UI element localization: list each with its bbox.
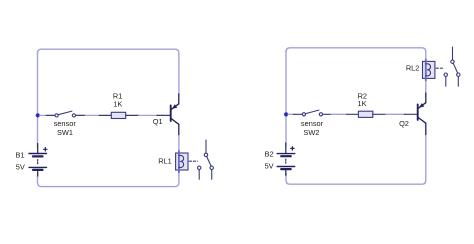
svg-text:RL2: RL2: [406, 63, 420, 72]
svg-text:SW2: SW2: [303, 128, 319, 137]
wire relay RL2 to Q2 collector: [425, 79, 427, 94]
relay RL2 coil: [423, 60, 435, 81]
wire Q1 emitter to relay RL1: [178, 134, 180, 152]
svg-text:B2: B2: [265, 150, 274, 159]
transistor Q2: [418, 93, 426, 135]
pin Q1 base: [157, 114, 170, 116]
wire right circuit bottom rail: [286, 134, 426, 184]
wire SW2 to R2: [331, 113, 347, 115]
resistor R2: [358, 111, 372, 117]
pin Q2 base: [404, 113, 417, 115]
svg-text:RL1: RL1: [158, 156, 172, 165]
resistor R1: [111, 112, 125, 118]
wire left circuit top rail and drop to Q1 collector: [38, 49, 179, 95]
pin R2 right: [373, 113, 386, 115]
wire R1 to Q1 base: [139, 114, 158, 116]
switch SW2: [302, 110, 322, 116]
svg-text:SW1: SW1: [57, 128, 73, 137]
svg-text:sensor: sensor: [54, 119, 77, 128]
svg-text:Q2: Q2: [399, 119, 409, 128]
node junction left: [36, 113, 40, 117]
wire junction to SW2: [288, 113, 294, 115]
relay RL2 contact: [444, 47, 460, 86]
switch SW1: [55, 111, 76, 117]
battery B1: [29, 144, 47, 177]
battery B2: [277, 143, 295, 175]
svg-text:1K: 1K: [357, 99, 366, 108]
dashed link RL1: [189, 160, 197, 162]
dashed link RL2: [436, 67, 444, 69]
relay RL1 coil: [176, 151, 188, 173]
wire left circuit left rail: [37, 52, 39, 148]
wire R2 to Q2 base: [386, 113, 405, 115]
svg-text:5V: 5V: [265, 161, 274, 170]
node junction right: [284, 112, 288, 116]
svg-text:1K: 1K: [113, 99, 122, 108]
wire left circuit bottom rail: [38, 173, 179, 187]
pin SW1 right: [76, 114, 86, 116]
wire junction to SW1: [40, 114, 47, 116]
wire right circuit top rail and drop to relay RL2: [286, 48, 426, 60]
svg-text:sensor: sensor: [301, 119, 324, 128]
transistor Q1: [171, 94, 179, 135]
wire right circuit left rail: [285, 51, 287, 147]
pin SW1 left: [46, 114, 55, 116]
pin R1 right: [126, 114, 139, 116]
relay RL1 contact: [198, 140, 214, 179]
svg-text:B1: B1: [15, 151, 24, 160]
svg-text:5V: 5V: [16, 162, 25, 171]
pin R1 left: [99, 114, 111, 116]
pin R2 left: [347, 113, 359, 115]
pin SW2 right: [323, 113, 332, 115]
pin SW2 left: [294, 113, 303, 115]
wire SW1 to R1: [85, 114, 99, 116]
svg-text:Q1: Q1: [153, 117, 163, 126]
